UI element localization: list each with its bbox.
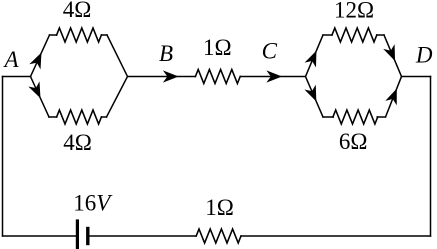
wire left combo top-left diagonal (31, 35, 50, 77)
svg-text:C: C (262, 38, 278, 63)
wire battery to bottom resistor (90, 235, 197, 237)
wire right combo top lead left (323, 34, 332, 36)
svg-text:D: D (415, 43, 433, 68)
svg-text:4Ω: 4Ω (63, 130, 92, 155)
resistor 4ohm top (57, 28, 102, 42)
wire left combo top lead right (101, 34, 107, 36)
battery 16V short plate (86, 229, 89, 244)
resistor 12ohm (332, 28, 377, 42)
resistor 1ohm middle (195, 70, 240, 84)
wire left vertical (2, 77, 4, 237)
current arrow down-right on right combo bottom branch (306, 86, 321, 103)
svg-text:6Ω: 6Ω (339, 129, 368, 154)
wire left combo top lead left (50, 34, 57, 36)
current arrow up-right into D on bottom branch (387, 88, 402, 104)
current arrow down-right on left combo bottom branch (30, 83, 45, 100)
wire B section (128, 76, 196, 78)
wire left combo bottom-right diagonal (107, 77, 128, 118)
wire left combo bottom-left diagonal (31, 77, 50, 118)
svg-text:4Ω: 4Ω (63, 0, 92, 22)
resistor 1ohm bottom (196, 229, 241, 243)
wire right vertical (430, 77, 432, 237)
current arrow right before right combo (268, 71, 282, 82)
wire A to left junction (3, 76, 31, 78)
wire right combo bottom lead left (323, 116, 333, 118)
wire D to right junction (402, 76, 431, 78)
wire left combo bottom lead right (101, 116, 106, 118)
svg-text:16V: 16V (73, 190, 113, 215)
battery 16V long plate (76, 221, 79, 249)
resistor 6ohm (333, 110, 378, 124)
wire right combo top-right diagonal (384, 35, 402, 77)
wire C section (240, 76, 305, 78)
svg-text:1Ω: 1Ω (203, 35, 232, 60)
svg-text:12Ω: 12Ω (334, 0, 374, 22)
wire left combo bottom lead left (49, 116, 57, 118)
current arrow up-right on left combo top branch (31, 51, 46, 68)
svg-text:1Ω: 1Ω (205, 195, 234, 220)
wire right combo top-left diagonal (306, 35, 324, 77)
current arrow up-right on right combo top branch (306, 50, 321, 67)
wire right combo bottom-right diagonal (386, 77, 402, 118)
wire right combo bottom lead right (377, 116, 385, 118)
resistor 4ohm bottom (57, 110, 102, 124)
svg-text:B: B (159, 41, 173, 66)
current arrow right after B (164, 71, 178, 82)
svg-text:A: A (2, 47, 19, 72)
wire left combo top-right diagonal (107, 35, 128, 77)
wire bottom left to battery (3, 235, 77, 237)
current arrow down-right into D on top branch (384, 46, 399, 63)
wire right combo top lead right (377, 34, 384, 36)
wire bottom right (241, 235, 431, 237)
wire right combo bottom-left diagonal (306, 77, 324, 118)
